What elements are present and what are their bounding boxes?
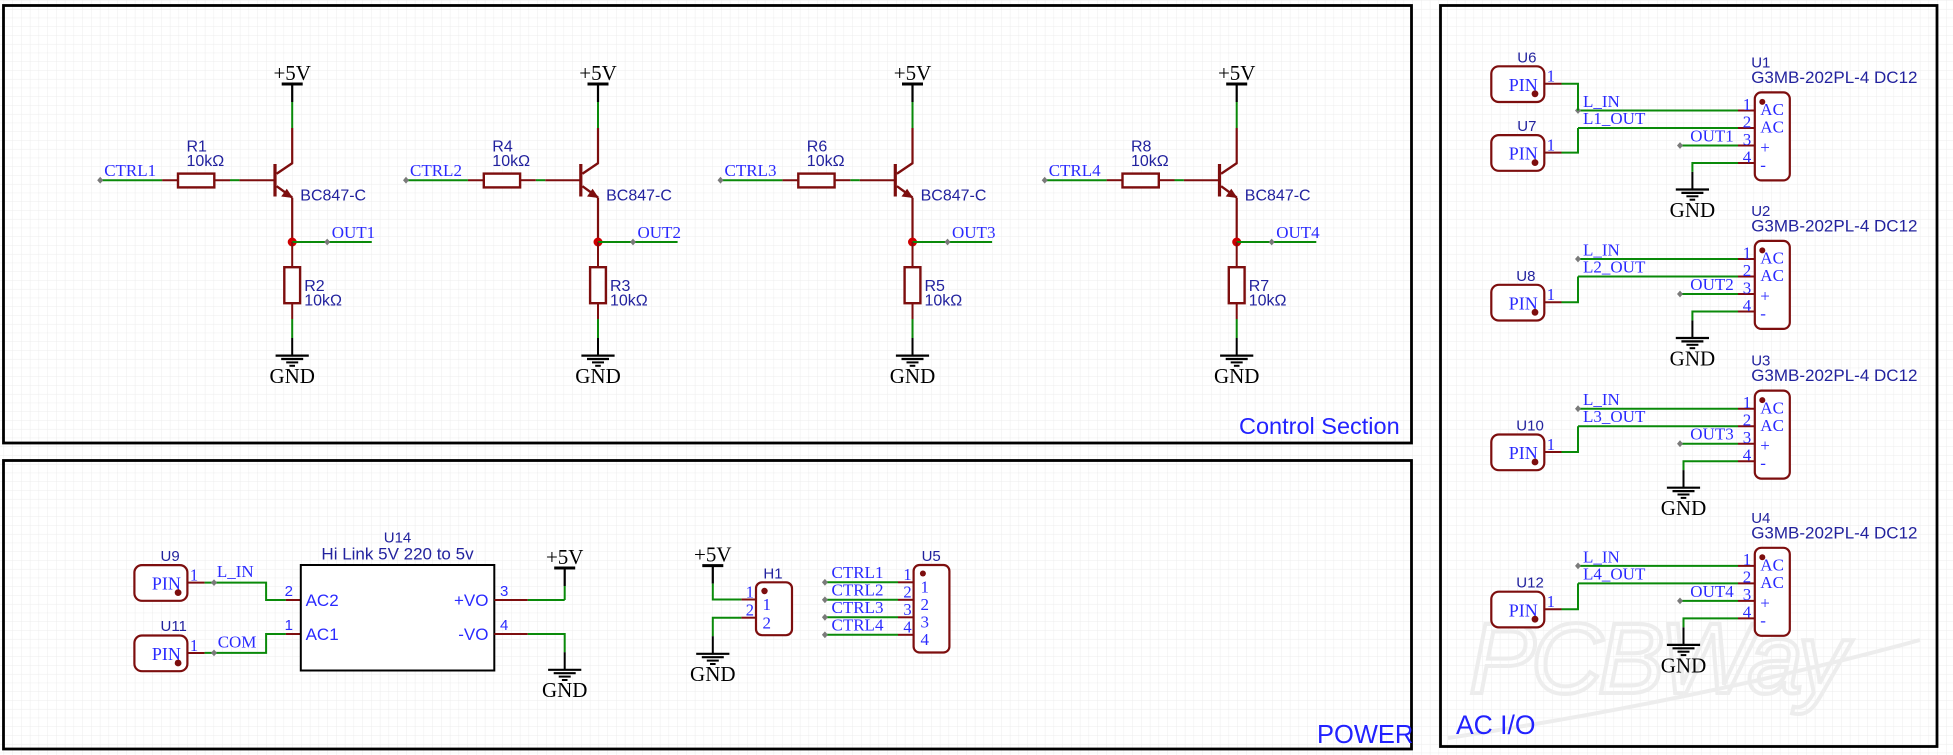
svg-text:CTRL3: CTRL3 [725,161,777,180]
svg-text:OUT1: OUT1 [332,223,375,242]
svg-text:10kΩ: 10kΩ [1249,293,1287,310]
svg-text:2: 2 [763,614,772,633]
svg-text:CTRL4: CTRL4 [832,615,884,634]
svg-text:3: 3 [500,583,508,600]
svg-text:1: 1 [746,583,754,602]
svg-text:U9: U9 [161,548,180,565]
svg-text:+VO: +VO [454,591,489,610]
svg-text:2: 2 [903,583,911,602]
svg-text:OUT3: OUT3 [1690,425,1733,444]
svg-text:L_IN: L_IN [217,562,254,581]
svg-text:OUT3: OUT3 [952,223,995,242]
svg-text:4: 4 [500,617,508,634]
svg-text:COM: COM [218,633,257,652]
svg-text:G3MB-202PL-4 DC12: G3MB-202PL-4 DC12 [1751,217,1917,236]
svg-text:1: 1 [763,595,772,614]
svg-text:U10: U10 [1516,418,1544,435]
svg-text:AC2: AC2 [306,591,339,610]
svg-text:10kΩ: 10kΩ [610,293,648,310]
svg-text:10kΩ: 10kΩ [492,153,530,170]
svg-text:10kΩ: 10kΩ [925,293,963,310]
svg-text:10kΩ: 10kΩ [1131,153,1169,170]
svg-text:POWER: POWER [1317,721,1413,749]
svg-text:1: 1 [921,578,930,597]
svg-text:4: 4 [921,630,930,649]
svg-text:BC847-C: BC847-C [606,187,672,204]
svg-text:AC1: AC1 [306,625,339,644]
svg-text:H1: H1 [763,565,782,582]
svg-text:U5: U5 [922,548,941,565]
svg-text:L2_OUT: L2_OUT [1583,258,1646,277]
svg-text:2: 2 [921,595,930,614]
svg-text:10kΩ: 10kΩ [807,153,845,170]
svg-text:OUT2: OUT2 [1690,275,1733,294]
svg-text:OUT4: OUT4 [1276,223,1320,242]
svg-text:AC I/O: AC I/O [1456,710,1536,740]
svg-text:G3MB-202PL-4 DC12: G3MB-202PL-4 DC12 [1751,68,1917,87]
svg-text:U6: U6 [1517,49,1536,66]
svg-text:L1_OUT: L1_OUT [1583,109,1646,128]
svg-text:CTRL1: CTRL1 [104,161,156,180]
svg-text:CTRL4: CTRL4 [1049,161,1101,180]
svg-text:CTRL2: CTRL2 [410,161,462,180]
svg-text:CTRL3: CTRL3 [832,598,884,617]
svg-text:1: 1 [903,565,911,584]
svg-text:U11: U11 [161,618,187,635]
svg-text:OUT4: OUT4 [1690,582,1734,601]
svg-text:G3MB-202PL-4 DC12: G3MB-202PL-4 DC12 [1751,366,1917,385]
svg-text:Control Section: Control Section [1239,413,1400,439]
svg-text:CTRL1: CTRL1 [832,563,884,582]
svg-text:U7: U7 [1517,118,1536,135]
svg-text:BC847-C: BC847-C [300,187,366,204]
svg-text:L3_OUT: L3_OUT [1583,407,1646,426]
svg-text:2: 2 [285,583,293,600]
svg-text:4: 4 [903,618,911,637]
svg-text:L4_OUT: L4_OUT [1583,564,1646,583]
svg-text:10kΩ: 10kΩ [187,153,225,170]
svg-text:Hi Link 5V 220 to 5v: Hi Link 5V 220 to 5v [321,545,474,564]
svg-text:G3MB-202PL-4 DC12: G3MB-202PL-4 DC12 [1751,523,1917,542]
svg-text:CTRL2: CTRL2 [832,580,884,599]
svg-text:OUT2: OUT2 [638,223,681,242]
svg-text:1: 1 [285,617,293,634]
svg-text:3: 3 [903,600,911,619]
svg-text:U12: U12 [1516,575,1544,592]
svg-text:BC847-C: BC847-C [1245,187,1311,204]
svg-text:2: 2 [746,601,754,620]
svg-text:U8: U8 [1516,268,1535,285]
svg-text:-VO: -VO [458,625,488,644]
svg-text:10kΩ: 10kΩ [304,293,342,310]
svg-text:3: 3 [921,613,930,632]
svg-text:BC847-C: BC847-C [921,187,987,204]
svg-text:OUT1: OUT1 [1690,126,1733,145]
